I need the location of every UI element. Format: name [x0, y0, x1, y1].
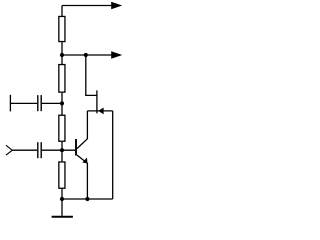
wire bottom rail to right: [62, 198, 113, 200]
power arrow 2 (node B out): [111, 51, 122, 58]
junction node E left: [60, 197, 64, 201]
junction node D: [60, 148, 64, 152]
resistor R1: [59, 16, 65, 41]
wire R4 bottom to node E: [61, 189, 63, 199]
wire Q1 emitter drop: [86, 163, 88, 199]
wire collector feed rail down from node B: [86, 55, 97, 95]
resistor R4: [59, 162, 65, 188]
resistor R3: [59, 115, 65, 141]
power arrow 1 (top): [111, 2, 122, 9]
capacitor C2 left plate: [37, 142, 39, 158]
capacitor C2 right plate: [40, 142, 42, 158]
capacitor C1 right plate: [40, 95, 42, 111]
transistor Q1 emitter arrow: [82, 158, 87, 164]
wire C1 to node C: [42, 102, 62, 104]
transistor Q1 emitter diagonal: [77, 155, 88, 163]
transistor Q1 base bar: [75, 139, 77, 156]
ground: [52, 216, 73, 218]
wire input 1 to C1: [10, 102, 37, 104]
wire net B horizontal to output arrow: [62, 54, 113, 56]
wire right rail vertical: [112, 111, 114, 199]
wire input 2 to C2: [12, 149, 37, 151]
wire Q1 collector riser: [86, 111, 88, 139]
wire top rail horizontal: [62, 5, 113, 7]
junction node B right: [84, 53, 88, 57]
wire R3 bottom to R4 top: [61, 142, 63, 161]
terminal input 2 chevron: [6, 145, 12, 155]
transistor Q1 collector diagonal: [77, 139, 88, 149]
capacitor C1 left plate: [37, 95, 39, 111]
wire node E down to ground: [61, 199, 63, 216]
wire source line y=111: [87, 110, 112, 112]
wire R2 bottom to R3 top: [61, 93, 63, 115]
junction node B left: [60, 53, 64, 57]
resistor R2: [59, 65, 65, 93]
wire top rail vertical drop to R1: [61, 6, 63, 17]
JFET J1 channel bar: [96, 90, 98, 113]
wire C2 to node D and base: [42, 149, 75, 151]
terminal input 1 bar: [9, 95, 11, 112]
junction node E emitter: [85, 197, 89, 201]
wire R1 bottom to R2 top: [61, 42, 63, 64]
junction node C: [60, 101, 64, 105]
JFET J1 gate arrow: [98, 108, 103, 115]
